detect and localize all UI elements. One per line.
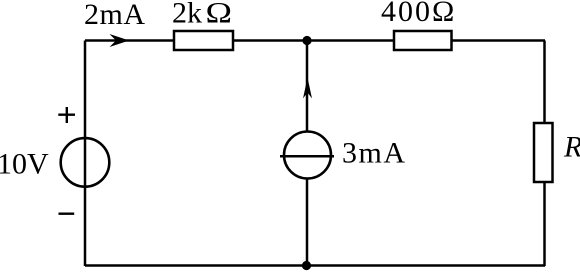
svg-text:2mA: 2mA [84, 0, 146, 31]
voltage source U=10V (circle, wire passes through) [61, 138, 110, 187]
svg-text:3mA: 3mA [342, 137, 407, 170]
current direction arrow 2mA [110, 34, 130, 47]
resistor 2kΩ [174, 31, 233, 50]
resistor R (vertical) [534, 123, 553, 182]
svg-text:400Ω: 400Ω [381, 0, 456, 28]
wire: middle vertical branch (current source branch) [306, 41, 309, 267]
wire: bottom horizontal net (reference node) [85, 264, 545, 267]
svg-text:2kΩ: 2kΩ [172, 0, 232, 30]
node B (bottom junction) [302, 261, 311, 270]
wire: left vertical branch (10V source branch) [84, 41, 87, 267]
wire: top horizontal net [85, 39, 545, 42]
polarity plus (+) [58, 107, 75, 123]
node A (top junction) [302, 36, 311, 45]
svg-text:10V: 10V [0, 148, 49, 181]
polarity minus (−) [59, 212, 75, 214]
arrow: 3mA current direction (up) [303, 78, 312, 99]
current source 3mA (circle with bar) [280, 132, 334, 179]
svg-text:R: R [563, 131, 580, 164]
resistor 400Ω [394, 31, 452, 50]
wire: right vertical branch (R branch) [543, 41, 546, 267]
